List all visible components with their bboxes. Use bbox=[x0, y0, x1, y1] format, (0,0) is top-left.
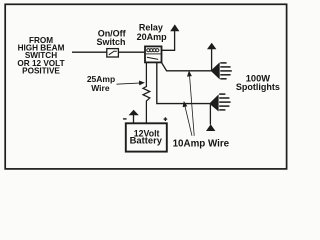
relay contact bbox=[147, 57, 158, 59]
relay coil bbox=[146, 49, 161, 54]
label: On/Off Switch bbox=[96, 29, 126, 48]
arrow: 10Amp pointer to top wire bbox=[188, 72, 195, 136]
wire: high-beam feed to switch bbox=[72, 51, 107, 53]
battery BT1 bbox=[126, 123, 167, 151]
svg-text:20Amp: 20Amp bbox=[137, 32, 168, 42]
label: Relay 20Amp bbox=[137, 23, 168, 42]
svg-text:Switch: Switch bbox=[96, 37, 125, 47]
arrow: 10Amp pointer to bottom wire bbox=[183, 102, 192, 136]
power arrow above relay bbox=[170, 24, 179, 31]
svg-text:10Amp Wire: 10Amp Wire bbox=[173, 139, 230, 150]
svg-text:Wire: Wire bbox=[91, 83, 110, 93]
wire: relay output to bottom spotlight bbox=[157, 62, 210, 103]
wire: relay to power arrow bbox=[162, 31, 175, 50]
label: 100W Spotlights bbox=[236, 73, 280, 92]
label: FROM HIGH BEAM SWITCH OR 12 VOLT POSITIVE bbox=[17, 36, 64, 76]
switch S1 On/Off bbox=[107, 49, 119, 57]
label: 12Volt Battery bbox=[130, 129, 163, 146]
wire: relay output to top spotlight bbox=[161, 62, 211, 71]
arrow: 25Amp wire pointer bbox=[117, 81, 144, 84]
battery negative terminal dash bbox=[123, 118, 127, 120]
svg-text:Battery: Battery bbox=[130, 135, 163, 146]
relay K1 bbox=[145, 46, 162, 62]
spotlight LP2 (bottom) bbox=[210, 94, 231, 111]
wire: relay to 25Amp zigzag to battery positive bbox=[143, 62, 150, 123]
svg-text:POSITIVE: POSITIVE bbox=[22, 67, 60, 76]
wire: switch to relay bbox=[118, 51, 144, 53]
label: 25Amp Wire bbox=[87, 74, 115, 93]
svg-text:Spotlights: Spotlights bbox=[236, 82, 280, 92]
spotlight LP1 (top) bbox=[211, 63, 232, 79]
ground arrow below bottom spotlight bbox=[206, 104, 215, 131]
battery positive terminal plus bbox=[164, 117, 168, 121]
power arrow above top spotlight bbox=[207, 43, 216, 71]
ground arrow at battery negative bbox=[129, 110, 139, 124]
